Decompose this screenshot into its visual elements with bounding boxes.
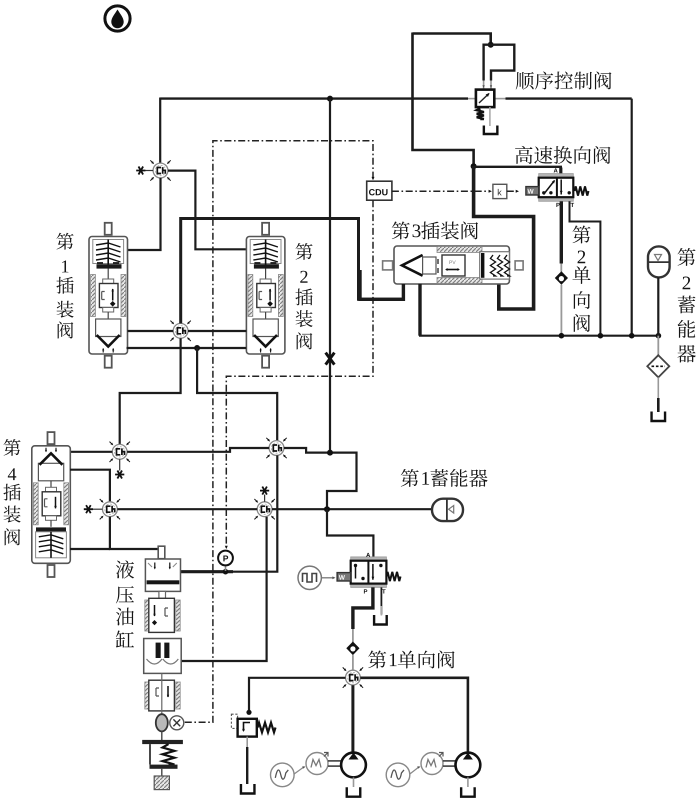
tank under relief valve xyxy=(241,784,255,794)
piston rod ellipse and position sensor xyxy=(156,673,184,731)
cartridge valve 4 icon xyxy=(32,432,71,577)
label cartridge valve 4 xyxy=(4,439,21,456)
junction dot above directional valve feed xyxy=(471,163,477,169)
wire directional valve T drain xyxy=(570,201,601,335)
wire gray stubs at sequence valve ports xyxy=(468,98,476,100)
sequence valve tank xyxy=(484,126,498,135)
pressure sensor P xyxy=(218,551,233,571)
hydraulic cylinder mid control square xyxy=(145,598,180,632)
filter diamond xyxy=(647,355,669,377)
load mass and spring under cylinder xyxy=(142,731,183,768)
label cartridge valve 2 xyxy=(296,243,313,260)
gain block k xyxy=(493,184,507,198)
flow junction J6 xyxy=(254,487,274,520)
high-speed directional valve xyxy=(526,168,589,207)
cartridge valve 2 icon xyxy=(246,223,285,368)
junction dots on bus xyxy=(559,333,565,339)
wire top horizontal to sequence valve pilot xyxy=(413,34,491,45)
wire bus to filter diamond xyxy=(657,336,659,356)
wire vertical x=412 down xyxy=(413,33,474,167)
label high speed directional valve xyxy=(515,146,532,164)
wire check valve 2 to bus xyxy=(560,285,562,336)
sequence valve spring xyxy=(477,109,484,120)
wire long vertical x=330 down to jog xyxy=(329,99,331,452)
check valve 2 xyxy=(555,271,568,285)
sequence valve drain line xyxy=(489,107,491,126)
hydraulic cylinder lower control square xyxy=(145,680,180,711)
wire J7 east down to pump 2 xyxy=(360,678,468,753)
wire J2 to valve2 A xyxy=(188,330,246,332)
flow junction J4 xyxy=(84,499,120,519)
junction dot on jog xyxy=(327,450,333,456)
wire pilot left branch xyxy=(484,45,491,81)
wire valve1 A to J2 xyxy=(128,330,174,332)
control dash-dot CDU output down to P sensor xyxy=(226,200,373,548)
plugged port X symbol xyxy=(326,353,335,365)
wire corner from main line down to junction J1 xyxy=(159,98,161,164)
junction dot P sensor xyxy=(223,569,229,575)
wire J7 west to relief valve xyxy=(249,678,346,711)
junction node pilot split xyxy=(488,42,494,48)
label check valve 1 xyxy=(368,651,386,669)
pump group 1 (signal, motor, pump, tank) xyxy=(271,753,366,797)
wire bus J4 to J6 xyxy=(117,508,257,510)
junction dot lower line xyxy=(194,345,200,351)
wire valve4 right to J4 xyxy=(70,470,110,502)
wire cartridge valve 3 bottom port to bus xyxy=(418,284,421,336)
cartridge valve 3 icon xyxy=(383,246,523,284)
junction dot bus x=327 xyxy=(324,506,330,512)
check valve 1 xyxy=(346,642,359,656)
fluid properties icon xyxy=(105,6,130,31)
wire thick into cylinder rod side xyxy=(181,570,233,573)
label check valve 2 xyxy=(573,226,591,244)
wire bus J6 east to accumulator 1 xyxy=(272,508,433,510)
relief valve xyxy=(231,714,275,736)
wire accumulator 2 to bus xyxy=(657,277,659,335)
label cartridge valve 3 xyxy=(392,222,410,240)
pilot gray stubs into sequence valve xyxy=(483,81,485,90)
accumulator 2 xyxy=(648,246,670,277)
wire J5 right jog to A-line xyxy=(284,448,357,509)
flow junction J1 xyxy=(136,160,171,180)
wire main line left of sequence valve xyxy=(160,97,468,99)
wire main line right of sequence valve xyxy=(506,97,632,99)
wire bottom valve P down xyxy=(353,587,373,629)
hydraulic cylinder lower chamber xyxy=(144,639,182,674)
wire pilot right Z branch xyxy=(491,45,515,81)
wire J3 to cartridge valve 4 xyxy=(70,451,112,453)
wire valve1 bottom to valve2 bottom xyxy=(127,347,247,349)
wire J6 down to cylinder mid xyxy=(182,517,267,661)
wire thick J2 up and right to cartridge valve 3 xyxy=(181,219,402,324)
CDU control unit block xyxy=(367,181,392,200)
control dash-dot line CDU to k to solenoid xyxy=(392,190,491,192)
wire J1 to cartridge valve 1 pilot xyxy=(128,178,161,250)
control dash-dot feedback loop left tall rectangle xyxy=(185,141,373,722)
hydraulic cylinder upper chamber xyxy=(145,559,180,591)
hydraulic cylinder top stub xyxy=(158,546,165,559)
wire relief valve drain to tank xyxy=(246,737,248,747)
junction dot relief valve top xyxy=(246,710,251,715)
hydraulic cylinder connector stub xyxy=(159,591,166,598)
signal source square wave xyxy=(298,566,336,589)
wire from dot down to J5 xyxy=(197,348,277,441)
wire J2 down to J3 xyxy=(120,338,181,444)
wire filter to tank xyxy=(657,377,659,398)
accumulator 1 xyxy=(432,499,463,521)
label hydraulic cylinder xyxy=(116,560,134,578)
wire J5 down to cylinder wire xyxy=(233,455,277,571)
bottom directional valve xyxy=(337,553,400,594)
wire to directional valve A port xyxy=(474,167,561,178)
sequence control valve body xyxy=(476,90,494,108)
wire J7 down to pump 1 xyxy=(351,685,354,753)
flow junction J5 xyxy=(266,438,286,458)
tank under accumulator 2 xyxy=(652,412,666,422)
wire bottom valve T to tank xyxy=(380,587,382,614)
label accumulator 1 xyxy=(401,469,419,487)
wire valve4 bottom-right to cylinder line xyxy=(70,548,110,550)
ground under cylinder xyxy=(154,769,169,790)
wire check valve 1 to junction J7 xyxy=(352,655,354,670)
wire dot down to bottom valve A xyxy=(327,509,373,559)
pump group 2 (signal, motor, pump, tank) xyxy=(386,753,480,797)
wire lower pressure bus xyxy=(419,335,658,337)
wire drop from sequence line to lower bus xyxy=(631,99,633,336)
junction dot main line xyxy=(327,96,333,102)
wire gray into check valve 1 xyxy=(352,629,354,642)
label sequence control valve xyxy=(516,72,534,90)
wire J3 to J5 xyxy=(127,448,269,452)
label cartridge valve 1 xyxy=(57,233,74,250)
flow junction J7 xyxy=(343,667,363,687)
flow junction J3 xyxy=(110,442,130,479)
wire directional valve P port down to check valve 2 xyxy=(560,201,563,263)
flow junction J2 xyxy=(170,321,190,341)
wire cartridge valve 3 bottom-left pilot xyxy=(360,270,403,299)
wire J4 down to cylinder top line xyxy=(110,517,158,549)
cartridge valve 1 icon xyxy=(89,223,128,368)
tank at bottom valve T xyxy=(374,615,387,625)
wire thick pilot path to cartridge valve 3 right xyxy=(474,166,534,309)
label accumulator 2 xyxy=(678,248,696,266)
wire J1 to cartridge valve 2 pilot xyxy=(168,171,247,250)
